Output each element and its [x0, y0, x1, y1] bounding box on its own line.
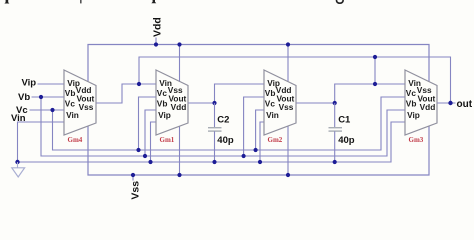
- Vss rail wire: [88, 126, 429, 175]
- junction at C1 tap: [333, 101, 337, 105]
- junction on Vdd rail at Gm1 riser: [177, 42, 181, 46]
- op-amp Gm3 symbol: [405, 70, 437, 135]
- junction out-net at Gm1 Vin: [137, 82, 141, 86]
- svg-text:Vin: Vin: [66, 110, 79, 120]
- wire ground line to Gm1 Vip pin: [151, 122, 157, 162]
- ground: [12, 162, 25, 177]
- wire Vb distribution line: [41, 97, 405, 156]
- svg-text:40p: 40p: [338, 135, 355, 146]
- svg-text:Vss: Vss: [279, 102, 294, 112]
- wire Gm1 bottom pin to Vss rail: [179, 126, 181, 175]
- junction out-net on top wire: [373, 55, 377, 59]
- svg-text:Vc: Vc: [265, 99, 276, 109]
- svg-text:Vdd: Vdd: [171, 102, 187, 112]
- svg-text:Vss: Vss: [130, 181, 142, 200]
- junction Vc at input: [50, 108, 54, 112]
- svg-text:Gm2: Gm2: [268, 136, 283, 144]
- capacitor C1: [329, 103, 343, 162]
- junction at out pin: [448, 101, 452, 105]
- svg-text:Vc: Vc: [406, 88, 417, 98]
- wire Vc line to Gm2 Vc pin: [256, 110, 264, 150]
- junction Vb line at Gm2 riser: [242, 154, 246, 158]
- svg-text:Vc: Vc: [65, 99, 76, 109]
- C1 value labels: [338, 115, 355, 147]
- svg-text:Vip: Vip: [158, 110, 171, 120]
- C2 value labels: [217, 115, 234, 147]
- svg-text:Vc: Vc: [157, 88, 168, 98]
- svg-text:Vip: Vip: [22, 78, 37, 89]
- svg-text:Gm4: Gm4: [68, 136, 83, 144]
- junction C1 bottom on ground line: [333, 160, 337, 164]
- svg-text:out: out: [457, 99, 473, 110]
- junction ground line at Gm2 riser: [258, 160, 262, 164]
- svg-text:Vin: Vin: [266, 110, 279, 120]
- junction at ground node: [15, 160, 19, 164]
- wire Vc line to Gm1 Vc pin: [139, 97, 157, 150]
- svg-text:Vb: Vb: [157, 99, 168, 109]
- wire Vin input to Gm4: [18, 122, 65, 162]
- capacitor C2: [208, 103, 222, 162]
- wire Vdd rail to Gm2 top pin: [287, 45, 289, 83]
- junction Vb line at Gm1 riser: [143, 154, 147, 158]
- svg-text:Vip: Vip: [407, 110, 420, 120]
- op-amp Gm2 symbol: [264, 70, 296, 135]
- junction on Vss rail at Gm2 riser: [286, 173, 290, 177]
- out net top wire: [139, 57, 451, 103]
- wire Gm4 output to Gm1 Vin: [96, 84, 156, 103]
- cropped caption text fragment (faint stem): [80, 0, 82, 3]
- svg-text:C1: C1: [338, 115, 351, 126]
- junction out-net on Vin wire: [373, 82, 377, 86]
- svg-text:40p: 40p: [217, 135, 234, 146]
- junction Vc line at Gm1 riser: [136, 148, 140, 152]
- wire Vb line to Gm2 Vb pin: [244, 97, 264, 156]
- junction: Vdd label tick: [154, 42, 158, 46]
- junction Vb at input: [39, 95, 43, 99]
- wire Vc distribution line: [53, 97, 406, 150]
- svg-text:Vb: Vb: [406, 99, 417, 109]
- wire Gm3 output to out pin: [437, 102, 456, 104]
- wire Vc input to Gm4: [30, 109, 65, 111]
- wire ground line to Gm2 Vin pin: [260, 122, 264, 162]
- wire Vb line to Gm1 Vb pin: [145, 110, 156, 156]
- wire Vb input to Gm4: [32, 96, 65, 98]
- svg-text:C2: C2: [217, 115, 229, 126]
- Vdd rail wire: [88, 45, 429, 83]
- op-amp Gm4 symbol: [64, 70, 96, 135]
- svg-text:Gm3: Gm3: [409, 136, 424, 144]
- wire Gm2 bottom pin to Vss rail: [287, 126, 289, 175]
- svg-text:Vdd: Vdd: [420, 102, 436, 112]
- wire Vdd rail to Gm1 top pin: [179, 45, 181, 83]
- wire Gm2 output to Gm3 Vin: [296, 84, 405, 103]
- wire out-net riser mid: [374, 57, 376, 84]
- cropped caption text fragment (stem): [4, 0, 9, 4]
- junction Vc line at Gm2 riser: [254, 148, 258, 152]
- svg-text:Vss: Vss: [79, 102, 94, 112]
- svg-text:Vdd: Vdd: [152, 17, 164, 37]
- Vss label: [130, 175, 142, 200]
- junction: Vss label tick: [131, 173, 135, 177]
- wire Gm1 output to Gm2 Vip: [188, 84, 264, 103]
- junction ground line at Gm1 riser: [148, 160, 152, 164]
- wire Vip input to Gm4: [38, 83, 65, 85]
- junction on Vdd rail at Gm2 riser: [286, 42, 290, 46]
- svg-text:Vb: Vb: [65, 88, 76, 98]
- op-amp Gm1 symbol: [156, 70, 188, 135]
- junction at C2 tap: [212, 101, 216, 105]
- junction C2 bottom on ground line: [212, 160, 216, 164]
- svg-text:Gm1: Gm1: [160, 136, 175, 144]
- junction on Vss rail at Gm1 riser: [177, 173, 181, 177]
- svg-text:Vb: Vb: [18, 92, 30, 103]
- cropped caption text fragment (g descender loop): [337, 0, 344, 3]
- cropped caption text fragment (stem): [151, 0, 156, 3]
- svg-text:Vb: Vb: [265, 88, 276, 98]
- wire ground distribution line: [18, 122, 406, 162]
- Vdd label: [152, 17, 164, 44]
